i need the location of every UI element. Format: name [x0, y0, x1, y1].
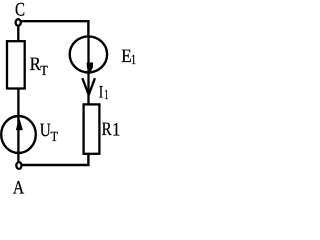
- wire through E1 down to R1: [87, 36, 89, 104]
- svg-text:I: I: [99, 82, 103, 102]
- resistor RT: [7, 41, 25, 88]
- svg-text:1: 1: [104, 88, 108, 103]
- svg-text:1: 1: [131, 53, 136, 68]
- wire RT to UT: [17, 88, 19, 121]
- svg-text:U: U: [40, 120, 51, 141]
- wire top (C to right corner, down to E1): [21, 21, 88, 36]
- terminal C: [16, 19, 21, 26]
- label R1: [102, 119, 121, 140]
- source E1: [70, 36, 107, 72]
- label E1: [121, 46, 136, 68]
- source UT: [1, 116, 36, 153]
- label UT: [40, 120, 59, 145]
- wire through UT to terminal A: [17, 120, 19, 162]
- svg-text:T: T: [51, 130, 59, 145]
- svg-text:R: R: [102, 119, 112, 140]
- svg-text:1: 1: [112, 119, 120, 140]
- resistor R1: [84, 104, 100, 153]
- label I1: [99, 82, 109, 103]
- svg-text:T: T: [40, 64, 48, 79]
- wire bottom (A to right corner, up to R1): [22, 154, 89, 165]
- terminal A: [16, 162, 21, 169]
- svg-text:A: A: [13, 178, 25, 199]
- svg-text:C: C: [15, 0, 25, 21]
- arrow inside UT (up): [16, 117, 23, 130]
- arrow inside E1 (down): [87, 63, 93, 74]
- label RT: [30, 54, 49, 79]
- wire C terminal to RT: [17, 26, 19, 42]
- current arrow I1 (open V): [82, 78, 95, 95]
